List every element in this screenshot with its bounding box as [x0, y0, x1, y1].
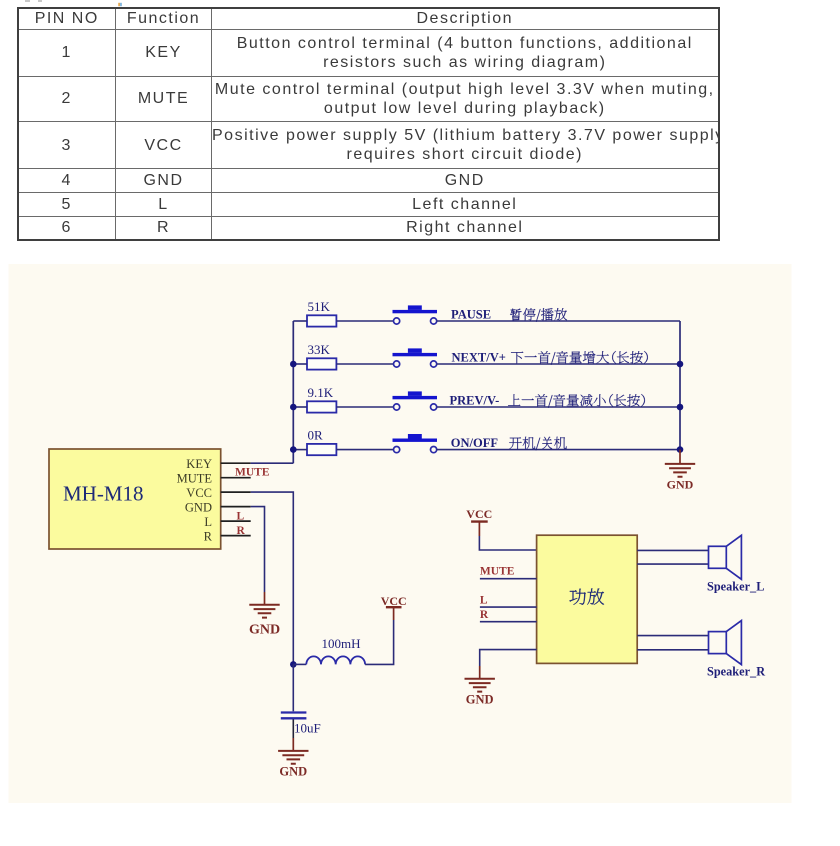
svg-text:MUTE: MUTE: [177, 472, 213, 486]
wire amp to speaker R minus: [637, 649, 708, 651]
svg-text:GND: GND: [466, 692, 494, 706]
ground capacitor: stub: [292, 738, 294, 751]
svg-text:VCC: VCC: [186, 486, 212, 500]
resistor R4 0R: [307, 427, 336, 455]
wire resistor to switch S3: [336, 406, 393, 408]
wire VCC to amp: [479, 536, 536, 550]
svg-text:GND: GND: [185, 500, 212, 514]
svg-text:NEXT/V+: NEXT/V+: [452, 350, 506, 364]
junction dots left bus: [290, 361, 297, 453]
svg-text:GND: GND: [667, 477, 694, 491]
svg-text:MUTE: MUTE: [235, 466, 270, 478]
ground buttons: stub: [679, 450, 681, 464]
wire left bus vertical: [292, 321, 294, 463]
wire row2 left bus to resistor: [293, 363, 307, 365]
push button S4: [393, 434, 438, 453]
wire amp GND down: [480, 650, 537, 666]
module MH-M18 body: [49, 449, 221, 549]
resistor R3 9.1K: [307, 385, 336, 413]
power port VCC (amp): [466, 507, 492, 536]
wire resistor to switch S4: [336, 449, 393, 451]
svg-text:GND: GND: [279, 764, 307, 778]
wire row4 left bus to resistor: [293, 449, 307, 451]
pin description table: [17, 7, 720, 241]
pin VCC stub: [221, 491, 251, 493]
svg-text:Speaker_R: Speaker_R: [707, 664, 765, 678]
ground module symbol: [249, 605, 280, 638]
pin R stub: [221, 535, 251, 537]
svg-text:Speaker_L: Speaker_L: [707, 580, 764, 594]
wire MUTE to amp: [480, 578, 537, 580]
wire switch S3 to right bus: [437, 406, 680, 408]
wire VCC to down-rail: [251, 492, 294, 664]
ground amp: stub: [479, 666, 481, 679]
pin MUTE stub: [221, 477, 251, 479]
pin GND stub: [221, 506, 251, 508]
net label chinese row4: [509, 437, 567, 451]
inductor L1 100mH: [306, 636, 365, 665]
wire switch S4 to right bus: [437, 449, 680, 451]
speaker LS1: [709, 535, 742, 579]
svg-text:ON/OFF: ON/OFF: [451, 436, 499, 450]
cursor artifact top: [25, 0, 122, 6]
svg-text:33K: 33K: [308, 342, 331, 357]
wire node down to capacitor: [292, 664, 294, 711]
svg-text:PREV/V-: PREV/V-: [450, 393, 500, 407]
svg-text:L: L: [204, 515, 212, 529]
ground capacitor symbol: [278, 751, 308, 779]
wire inductor to VCC riser: [365, 620, 394, 664]
power port VCC (inductor): [381, 594, 407, 620]
wire switch S1 to right bus: [437, 320, 680, 322]
svg-text:MUTE: MUTE: [480, 565, 515, 577]
wire node to inductor: [293, 663, 306, 665]
svg-text:L: L: [237, 510, 245, 522]
svg-text:9.1K: 9.1K: [308, 385, 334, 400]
ground module: stub: [264, 592, 266, 605]
svg-text:R: R: [204, 529, 213, 543]
svg-text:VCC: VCC: [466, 507, 492, 521]
svg-text:VCC: VCC: [381, 594, 407, 608]
wire KEY to left bus: [251, 462, 294, 464]
svg-text:10uF: 10uF: [294, 721, 321, 736]
pin L stub: [221, 520, 251, 522]
wire row3 left bus to resistor: [293, 406, 307, 408]
wire L to amp: [480, 606, 537, 608]
push button S1: [393, 305, 438, 324]
svg-text:KEY: KEY: [186, 457, 212, 471]
svg-text:0R: 0R: [308, 427, 324, 442]
wire resistor to switch S1: [336, 320, 393, 322]
capacitor C1 10uF: [281, 713, 321, 736]
wire R to amp: [480, 621, 537, 623]
svg-text:L: L: [480, 594, 488, 606]
push button S2: [393, 348, 438, 367]
svg-text:MH-M18: MH-M18: [63, 482, 144, 506]
wire capacitor to ground: [292, 719, 294, 738]
net label chinese row1: [510, 308, 567, 322]
wire row1 left bus to resistor: [293, 320, 307, 322]
wire GND pin down: [251, 507, 265, 592]
junction dot inductor node: [290, 661, 297, 668]
push button S3: [393, 391, 438, 410]
wire amp to speaker R plus: [637, 635, 708, 637]
wire amp to speaker L plus: [637, 549, 708, 551]
svg-text:R: R: [480, 609, 489, 621]
svg-text:GND: GND: [249, 623, 280, 638]
ground amp symbol: [465, 679, 495, 707]
ground buttons symbol: [665, 464, 695, 492]
svg-text:51K: 51K: [308, 299, 331, 314]
speaker LS2: [709, 621, 742, 665]
svg-text:100mH: 100mH: [322, 636, 361, 651]
resistor R1 51K: [307, 299, 336, 327]
svg-text:PAUSE: PAUSE: [451, 307, 491, 321]
junction dots right bus: [677, 361, 684, 453]
wire resistor to switch S2: [336, 363, 393, 365]
wire right bus vertical: [679, 321, 681, 450]
amplifier block 功放: [537, 535, 638, 663]
wire amp to speaker L minus: [637, 563, 708, 565]
wire switch S2 to right bus: [437, 363, 680, 365]
net label chinese row2: [511, 351, 648, 365]
resistor R2 33K: [307, 342, 336, 370]
schematic sheet background: [9, 264, 792, 803]
pin KEY stub: [221, 462, 251, 464]
net label chinese row3: [508, 394, 645, 408]
svg-text:R: R: [237, 525, 246, 537]
